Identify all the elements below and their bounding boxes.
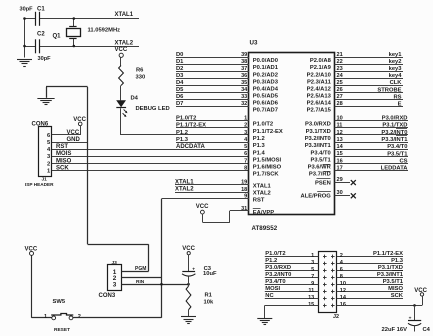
svg-text:key1: key1: [389, 52, 403, 58]
junction dot C3/R1: [187, 283, 190, 286]
svg-text:4: 4: [47, 147, 51, 153]
svg-text:P0.1/AD1: P0.1/AD1: [253, 65, 279, 71]
svg-text:5: 5: [311, 267, 314, 273]
ground (CON6 GND): [37, 98, 54, 100]
svg-text:1: 1: [44, 314, 47, 320]
svg-text:CS: CS: [399, 158, 407, 164]
wire net P3.3/INT1 from U3 pin 13: [335, 142, 408, 144]
svg-text:+: +: [192, 267, 195, 272]
svg-text:VCC: VCC: [67, 130, 80, 136]
capacitor C3 10uF polarized: [182, 271, 195, 273]
junction dots left rail: [23, 17, 26, 20]
svg-text:3: 3: [47, 154, 51, 160]
svg-text:21: 21: [337, 52, 343, 58]
svg-text:P3.3/INT1: P3.3/INT1: [381, 137, 408, 143]
svg-text:SW5: SW5: [53, 299, 66, 305]
svg-text:P3.0/RXD: P3.0/RXD: [382, 116, 408, 122]
wire net RS from U3 pin 27: [335, 99, 403, 101]
svg-text:22: 22: [337, 59, 343, 65]
svg-text:D7: D7: [176, 101, 183, 107]
svg-text:P3.1/TXD: P3.1/TXD: [306, 129, 331, 135]
svg-text:3: 3: [244, 130, 247, 136]
svg-text:P3.3/INT1: P3.3/INT1: [305, 143, 332, 149]
svg-text:37: 37: [241, 66, 247, 72]
J2 pin marker row 3: [323, 270, 327, 272]
svg-text:XTAL2: XTAL2: [175, 187, 194, 193]
resistor R1 10k: [188, 284, 190, 286]
svg-text:19: 19: [241, 180, 247, 186]
svg-text:P0.3/AD3: P0.3/AD3: [253, 79, 279, 85]
wire CON6 VCC pin 6: [52, 134, 80, 136]
svg-text:P3.2/INT0: P3.2/INT0: [265, 272, 291, 278]
wire net key4 from U3 pin 24: [335, 78, 403, 80]
svg-text:6: 6: [340, 267, 343, 273]
wire net P3.1/TXD from U3 pin 11: [335, 127, 408, 129]
wire net D1 to U3 pin 38: [176, 64, 249, 66]
svg-text:MOSI: MOSI: [265, 286, 280, 292]
wire VCC to EA/VPP pin 31: [202, 222, 230, 224]
svg-text:XTAL1: XTAL1: [175, 180, 194, 186]
wire net P1.0/T2 to J2 pin 1: [265, 256, 319, 258]
svg-text:P2.5/A13: P2.5/A13: [307, 93, 332, 99]
svg-text:P2.6/A14: P2.6/A14: [307, 100, 332, 106]
svg-text:9: 9: [311, 281, 314, 287]
svg-text:P1.5/MOSI: P1.5/MOSI: [253, 157, 282, 163]
wire net D0 to U3 pin 39: [176, 57, 249, 59]
svg-text:P0.6/AD6: P0.6/AD6: [253, 100, 279, 106]
svg-text:16: 16: [337, 158, 343, 164]
svg-text:J2: J2: [333, 314, 339, 320]
resistor R6: [119, 66, 124, 86]
capacitor C4 22uF 16V polarized: [414, 305, 416, 320]
svg-text:C4: C4: [423, 327, 431, 333]
svg-text:7: 7: [311, 274, 314, 280]
wire net STROBE from U3 pin 26: [335, 92, 403, 94]
wire net MOSI to J2 pin 11: [265, 291, 319, 293]
svg-text:10: 10: [340, 281, 346, 287]
net SCK wire from CON6 pin 1 to U3 pin 8: [52, 170, 249, 172]
switch SW5 RESET: [52, 316, 56, 320]
wire ground run from CON6 GND down to CON3 PGM: [87, 87, 89, 244]
svg-text:LEDDATA: LEDDATA: [381, 166, 409, 172]
LED D4: [116, 100, 126, 107]
svg-text:P1.2: P1.2: [176, 130, 188, 136]
wire net SCK from J2 pin 14: [337, 298, 403, 300]
svg-text:E: E: [398, 101, 402, 107]
svg-text:P3.6/WR: P3.6/WR: [308, 165, 332, 171]
svg-text:U3: U3: [250, 39, 258, 46]
svg-text:P1.2: P1.2: [253, 136, 265, 142]
svg-text:P1.6/MISO: P1.6/MISO: [253, 165, 282, 171]
svg-text:14: 14: [337, 144, 344, 150]
svg-text:17: 17: [337, 165, 343, 171]
svg-text:P0.7/AD7: P0.7/AD7: [253, 107, 278, 113]
svg-text:36: 36: [241, 73, 247, 79]
svg-text:P0.0/AD0: P0.0/AD0: [253, 58, 278, 64]
svg-text:D6: D6: [176, 94, 184, 100]
svg-text:P3.2/INT0: P3.2/INT0: [305, 136, 331, 142]
svg-text:P2.7/A15: P2.7/A15: [307, 107, 332, 113]
J2 pin marker row 4: [323, 277, 327, 279]
wire CON3 pin 3 RIN to C3/R1 junction: [122, 284, 189, 286]
wire net LEDDATA from U3 pin 17: [335, 170, 408, 172]
svg-text:XTAL2: XTAL2: [253, 191, 271, 197]
svg-text:C2: C2: [37, 31, 45, 37]
junction dot C4 tap: [413, 304, 416, 307]
J2 pin marker row 5: [323, 284, 327, 286]
wire net P3.5/T1 from J2 pin 10: [337, 284, 403, 286]
wire net D6 to U3 pin 33: [176, 99, 249, 101]
svg-text:VCC: VCC: [115, 47, 128, 53]
svg-text:XTAL2: XTAL2: [115, 41, 134, 47]
svg-text:DEBUG LED: DEBUG LED: [136, 106, 170, 112]
LED emission arrows: [124, 109, 127, 112]
svg-text:ADCDATA: ADCDATA: [176, 144, 205, 150]
svg-text:P3.3/INT1: P3.3/INT1: [377, 272, 404, 278]
svg-text:STROBE: STROBE: [377, 87, 401, 93]
wire XTAL1 net (crystal top rail): [25, 18, 36, 20]
svg-text:8: 8: [340, 274, 343, 280]
wire CON3 pin 1 PGM to ground run: [122, 271, 149, 273]
svg-text:RST: RST: [56, 144, 68, 150]
svg-text:P2.0/A8: P2.0/A8: [310, 58, 332, 64]
svg-text:D1: D1: [176, 59, 184, 65]
wire net P3.0/RXD to J2 pin 5: [265, 270, 319, 272]
wire net P3.4/T0 from U3 pin 14: [335, 149, 408, 151]
svg-text:key2: key2: [389, 59, 402, 65]
wire net D2 to U3 pin 37: [176, 71, 249, 73]
svg-text:6: 6: [47, 133, 51, 139]
wire net P1.2 to J2 pin 3: [265, 263, 319, 265]
svg-text:RIN: RIN: [136, 279, 145, 285]
svg-text:P3.4/T0: P3.4/T0: [387, 144, 407, 150]
wire net D7 to U3 pin 32: [176, 106, 249, 108]
net MOIS wire from CON6 pin 3 to U3 pin 6: [52, 156, 249, 158]
svg-text:10k: 10k: [204, 300, 214, 306]
svg-text:P3.2/INT0: P3.2/INT0: [381, 130, 407, 136]
svg-text:MISO: MISO: [388, 286, 403, 292]
svg-text:8: 8: [244, 165, 247, 171]
svg-text:P3.5/T1: P3.5/T1: [383, 279, 404, 285]
svg-text:38: 38: [241, 59, 247, 65]
svg-text:12: 12: [337, 130, 343, 136]
wire net P3.5/T1 from U3 pin 15: [335, 156, 408, 158]
net RST wire from CON6 pin 4 to U3 pin 5: [52, 149, 249, 151]
svg-text:RS: RS: [393, 94, 401, 100]
wire net key2 from U3 pin 22: [335, 64, 403, 66]
svg-text:18: 18: [241, 187, 247, 193]
svg-text:P3.7/RD: P3.7/RD: [309, 172, 331, 178]
svg-text:P1.0/T2: P1.0/T2: [265, 251, 285, 257]
svg-text:NC: NC: [265, 293, 274, 299]
svg-text:27: 27: [337, 94, 343, 100]
svg-text:13: 13: [337, 137, 343, 143]
svg-text:P1.3: P1.3: [253, 143, 266, 149]
J2 pin marker row 1: [323, 256, 327, 258]
svg-text:1: 1: [47, 169, 51, 175]
capacitor C1: [35, 12, 37, 26]
svg-text:5: 5: [47, 140, 51, 146]
svg-text:XTAL1: XTAL1: [115, 12, 134, 18]
svg-text:C1: C1: [37, 7, 45, 13]
ground (R1): [181, 316, 196, 318]
svg-text:30: 30: [337, 190, 343, 196]
IC U3 AT89S52 body: [249, 53, 335, 215]
svg-text:P1.1/T2-EX: P1.1/T2-EX: [253, 129, 283, 135]
svg-text:2: 2: [47, 161, 50, 167]
wire net key3 from U3 pin 23: [335, 71, 403, 73]
wire J2 pin 15 to ground: [265, 305, 319, 307]
ground (crystal caps): [17, 59, 32, 61]
svg-text:PSEN: PSEN: [315, 181, 331, 187]
wire net P1.1/T2-EX from J2 pin 2: [337, 256, 403, 258]
svg-text:5: 5: [244, 144, 247, 150]
svg-text:ALE/PROG: ALE/PROG: [301, 193, 332, 199]
net MISO wire from CON6 pin 2 to U3 pin 7: [52, 163, 249, 165]
svg-text:11.0592MHz: 11.0592MHz: [88, 28, 121, 34]
wire left rail joining C1 and C2: [24, 19, 26, 58]
svg-text:2: 2: [244, 123, 247, 129]
svg-text:28: 28: [337, 101, 343, 107]
wire RST net to U3 pin 9: [162, 198, 250, 200]
svg-text:P3.4/T0: P3.4/T0: [265, 279, 285, 285]
svg-text:34: 34: [241, 87, 248, 93]
svg-text:P2.1/A9: P2.1/A9: [310, 65, 332, 71]
svg-text:P0.5/AD5: P0.5/AD5: [253, 93, 279, 99]
wire R6 to LED: [120, 86, 122, 101]
wire net D5 to U3 pin 34: [176, 92, 249, 94]
wire SW5 to RST vertical: [73, 317, 162, 319]
svg-text:P1.7/SCK: P1.7/SCK: [253, 172, 280, 178]
ground (J2): [257, 318, 272, 320]
wire RST net vertical: [161, 199, 163, 318]
wire net P1.0/T2 to U3 pin 1: [176, 120, 249, 122]
wire net P3.2/INT0 to J2 pin 7: [265, 277, 319, 279]
wire net CS from U3 pin 16: [335, 163, 408, 165]
svg-text:P3.1/TXD: P3.1/TXD: [382, 123, 407, 129]
svg-text:PGM: PGM: [135, 266, 146, 272]
svg-text:32: 32: [241, 101, 247, 107]
svg-text:33: 33: [241, 94, 247, 100]
svg-text:P1.3: P1.3: [176, 137, 189, 143]
svg-text:SCK: SCK: [56, 166, 69, 172]
svg-text:30pF: 30pF: [20, 6, 34, 12]
svg-text:3: 3: [113, 282, 117, 289]
svg-text:Q1: Q1: [53, 34, 62, 40]
svg-text:CLK: CLK: [390, 80, 403, 86]
svg-text:11: 11: [308, 288, 314, 294]
svg-text:P2.2/A10: P2.2/A10: [307, 72, 331, 78]
svg-text:D2: D2: [176, 66, 183, 72]
svg-text:13: 13: [308, 295, 314, 301]
svg-text:39: 39: [241, 52, 247, 58]
wire net P3.0/RXD from U3 pin 10: [335, 120, 408, 122]
J2 pin marker row 7: [323, 298, 327, 300]
svg-text:25: 25: [337, 80, 343, 86]
svg-text:P2.4/A12: P2.4/A12: [307, 86, 331, 92]
wire net XTAL2 to U3 pin 18: [175, 192, 249, 194]
wire net NC to J2 pin 13: [265, 298, 319, 300]
svg-text:6: 6: [244, 151, 247, 157]
svg-text:26: 26: [337, 87, 343, 93]
svg-text:16: 16: [340, 302, 346, 308]
svg-text:2: 2: [340, 253, 343, 259]
svg-text:P3.4/T0: P3.4/T0: [310, 150, 330, 156]
svg-text:P0.2/AD2: P0.2/AD2: [253, 72, 278, 78]
wire CON3 pin 2 to RST vertical: [122, 277, 162, 279]
svg-text:P1.1/T2-EX: P1.1/T2-EX: [176, 123, 206, 129]
svg-text:29: 29: [337, 177, 343, 183]
svg-text:35: 35: [241, 80, 247, 86]
U3 pin 29 PSEN no-connect: [335, 182, 350, 184]
svg-text:P1.1/T2-EX: P1.1/T2-EX: [373, 251, 403, 257]
wire net E from U3 pin 28: [335, 106, 403, 108]
connector J2 body: [319, 252, 337, 313]
svg-text:4: 4: [340, 260, 344, 266]
svg-text:15: 15: [308, 302, 314, 308]
wire net D4 to U3 pin 35: [176, 85, 249, 87]
svg-text:key3: key3: [389, 66, 403, 72]
svg-text:P2.3/A11: P2.3/A11: [307, 79, 332, 85]
svg-text:D5: D5: [176, 87, 184, 93]
svg-text:SCK: SCK: [391, 293, 404, 299]
svg-text:31: 31: [241, 206, 247, 212]
svg-text:key4: key4: [389, 73, 403, 79]
wire net key1 from U3 pin 21: [335, 57, 403, 59]
svg-text:XTAL1: XTAL1: [253, 184, 272, 190]
svg-text:D0: D0: [176, 52, 183, 58]
wire CON6 GND pin 5: [52, 142, 88, 144]
svg-text:P1.4: P1.4: [253, 150, 266, 156]
wire J2 pin 16 to VCC: [337, 305, 422, 307]
J2 pin marker row 6: [323, 291, 327, 293]
svg-text:RESET: RESET: [54, 327, 70, 333]
svg-text:AT89S52: AT89S52: [252, 225, 278, 232]
svg-text:EA/VPP: EA/VPP: [253, 210, 274, 216]
svg-text:11: 11: [337, 123, 343, 129]
wire net XTAL1 to U3 pin 19: [175, 184, 249, 186]
J2 pin marker row 8: [323, 305, 327, 307]
svg-text:9: 9: [244, 194, 247, 200]
svg-text:3: 3: [311, 260, 314, 266]
svg-text:P1.3: P1.3: [391, 258, 404, 264]
svg-text:12: 12: [340, 288, 346, 294]
svg-text:P1.0/T2: P1.0/T2: [253, 122, 273, 128]
svg-text:30pF: 30pF: [38, 56, 52, 62]
svg-text:VCC: VCC: [196, 204, 209, 210]
svg-text:R6: R6: [136, 68, 144, 74]
svg-text:22uF 16V: 22uF 16V: [382, 327, 408, 333]
junction dot RST net: [160, 283, 163, 286]
svg-text:330: 330: [136, 75, 146, 81]
wire net MISO from J2 pin 12: [337, 291, 403, 293]
svg-text:P1.0/T2: P1.0/T2: [176, 116, 196, 122]
crystal Q1: [73, 19, 75, 27]
svg-text:14: 14: [340, 295, 347, 301]
wire net P1.3 to U3 pin 4: [176, 142, 249, 144]
svg-text:D4: D4: [131, 96, 139, 102]
svg-text:RST: RST: [253, 197, 265, 203]
svg-text:GND: GND: [67, 137, 81, 143]
svg-text:7: 7: [244, 158, 247, 164]
svg-text:MOIS: MOIS: [56, 151, 71, 157]
svg-text:1: 1: [244, 116, 247, 122]
wire net P3.1/TXD from J2 pin 6: [337, 270, 403, 272]
svg-text:P0.4/AD4: P0.4/AD4: [253, 86, 279, 92]
svg-text:P3.0/RXD: P3.0/RXD: [305, 122, 331, 128]
svg-text:10uF: 10uF: [203, 271, 217, 277]
svg-text:24: 24: [337, 73, 344, 79]
wire net D3 to U3 pin 36: [176, 78, 249, 80]
wire LED cathode to P1.2 net: [120, 108, 122, 135]
svg-text:10: 10: [337, 116, 343, 122]
U3 pin 30 ALE/PROG no-connect: [335, 195, 350, 197]
wire VCC to SW5: [32, 317, 52, 319]
wire XTAL2 net (crystal bottom rail): [25, 46, 36, 48]
capacitor C2: [35, 39, 37, 53]
J2 pin marker row 2: [323, 263, 327, 265]
svg-text:D3: D3: [176, 73, 184, 79]
svg-text:R1: R1: [205, 293, 213, 299]
svg-text:P1.2: P1.2: [265, 258, 277, 264]
svg-text:D4: D4: [176, 80, 184, 86]
svg-text:ISP HEADER: ISP HEADER: [25, 182, 54, 187]
wire net P1.1/T2-EX to U3 pin 2: [176, 127, 249, 129]
svg-text:23: 23: [337, 66, 343, 72]
wire net CLK from U3 pin 25: [335, 85, 403, 87]
svg-text:P3.5/T1: P3.5/T1: [387, 151, 408, 157]
wire net P1.3 from J2 pin 4: [337, 263, 403, 265]
svg-text:CON3: CON3: [99, 293, 116, 299]
svg-text:1: 1: [311, 253, 314, 259]
wire net P3.3/INT1 from J2 pin 8: [337, 277, 403, 279]
svg-text:15: 15: [337, 151, 343, 157]
svg-text:MISO: MISO: [56, 158, 72, 164]
wire net P3.4/T0 to J2 pin 9: [265, 284, 319, 286]
wire net P3.2/INT0 from U3 pin 12: [335, 134, 408, 136]
svg-text:P3.5/T1: P3.5/T1: [310, 157, 331, 163]
